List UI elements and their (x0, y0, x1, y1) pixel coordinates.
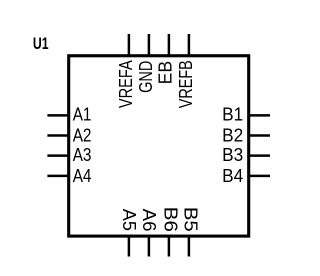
svg-text:B3: B3 (222, 144, 243, 165)
svg-text:VREFA: VREFA (115, 60, 136, 108)
svg-text:A1: A1 (73, 104, 92, 125)
svg-text:A4: A4 (73, 165, 92, 186)
svg-text:GND: GND (135, 61, 156, 93)
svg-text:U1: U1 (33, 35, 49, 53)
svg-text:B4: B4 (222, 165, 243, 186)
svg-text:B2: B2 (222, 124, 243, 145)
svg-text:A2: A2 (73, 124, 92, 145)
svg-text:B6: B6 (160, 207, 181, 232)
svg-text:VREFB: VREFB (175, 60, 196, 108)
svg-text:B5: B5 (181, 207, 202, 232)
svg-text:A5: A5 (119, 209, 140, 231)
svg-text:A3: A3 (73, 144, 92, 165)
svg-text:A6: A6 (139, 209, 160, 232)
svg-text:EB: EB (155, 61, 176, 85)
svg-text:B1: B1 (222, 104, 243, 125)
